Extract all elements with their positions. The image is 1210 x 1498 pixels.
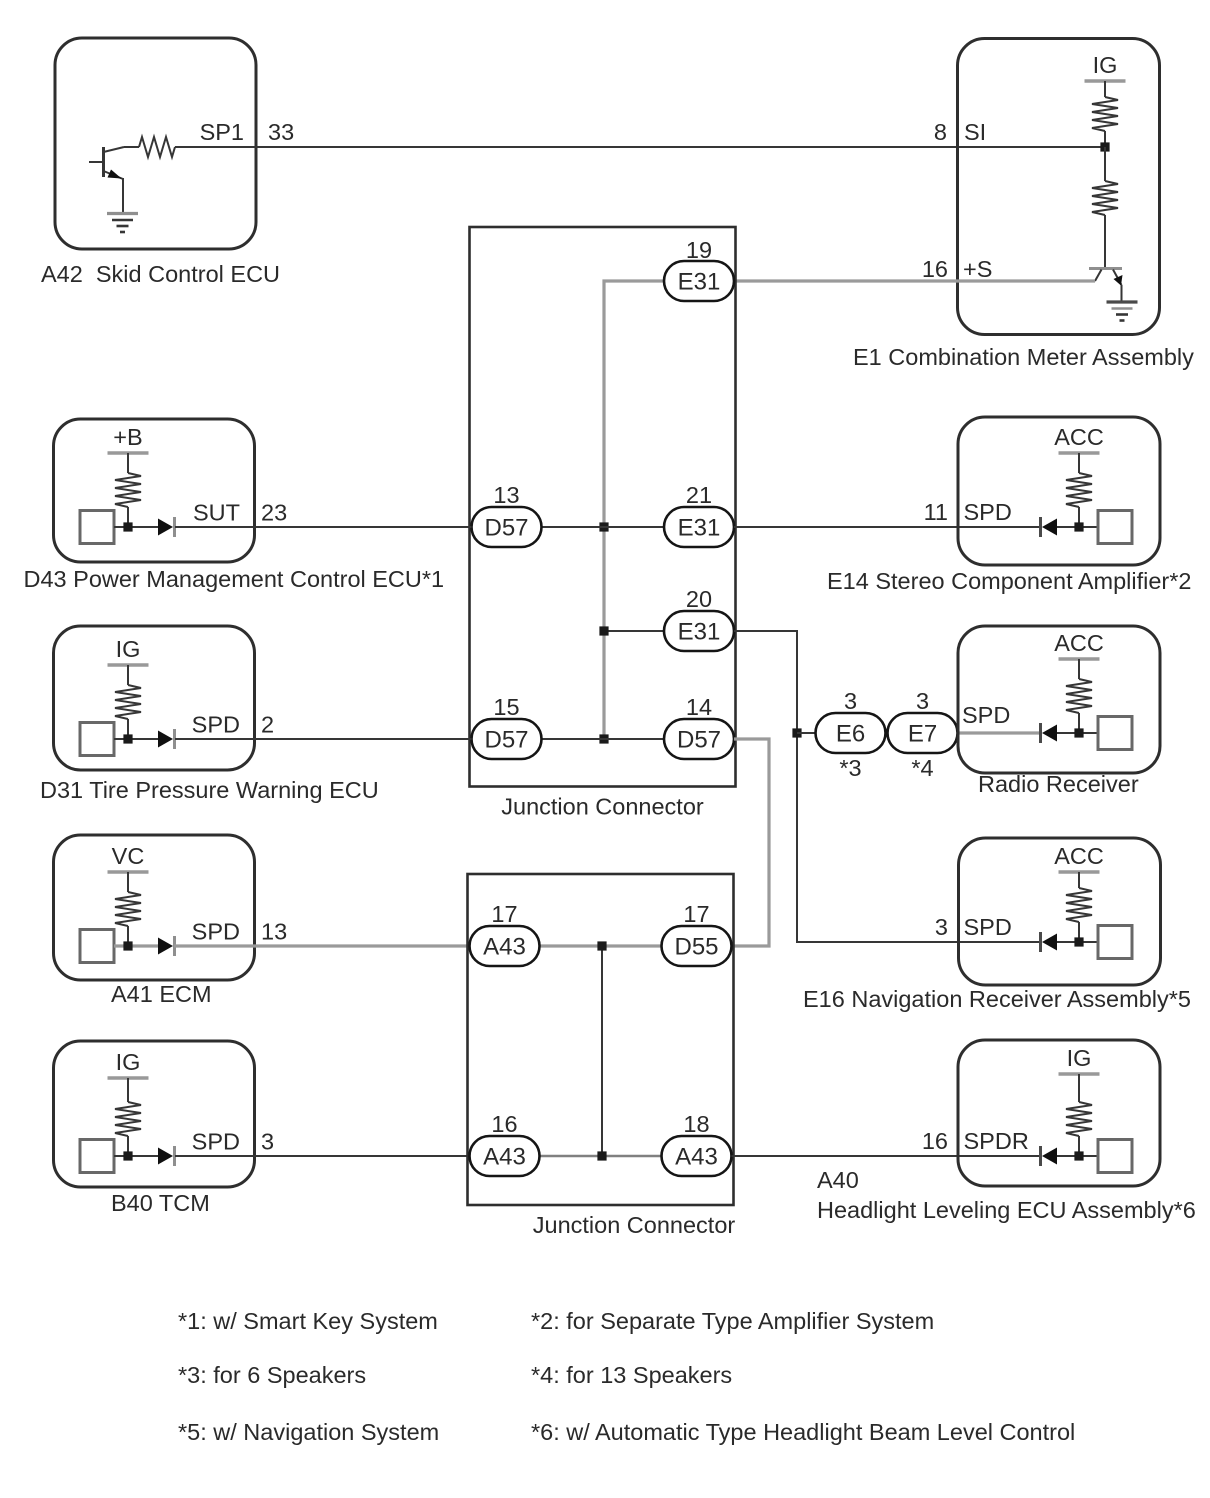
- svg-text:33: 33: [268, 119, 294, 145]
- junction node (bus at row E31 20): [599, 626, 608, 635]
- junction node (E16): [1074, 937, 1083, 946]
- label D31 Tire Pressure Warning ECU: [40, 777, 379, 803]
- power tap VC (A41): [108, 843, 149, 872]
- svg-text:Radio Receiver: Radio Receiver: [978, 771, 1139, 797]
- connector E6 pin 3: [816, 713, 886, 753]
- svg-text:E31: E31: [678, 619, 721, 646]
- wire ACC to R8: [1078, 872, 1080, 888]
- svg-text:+B: +B: [113, 424, 142, 450]
- wire node SI to R3: [1104, 147, 1106, 181]
- wire D57 15 to D57 14: [542, 738, 664, 740]
- svg-text:SP1: SP1: [200, 119, 244, 145]
- wire E31 pin20 to E16 SPD (net 3): [734, 631, 1040, 942]
- svg-text:D31 Tire Pressure Warning ECU: D31 Tire Pressure Warning ECU: [40, 777, 379, 803]
- svg-text:D55: D55: [674, 934, 718, 961]
- power tap ACC (Radio): [1054, 630, 1104, 659]
- wire node to diode (B40): [114, 1155, 158, 1157]
- footnote *6: [531, 1419, 1075, 1445]
- wire R11 to node: [1078, 1136, 1080, 1156]
- svg-text:13: 13: [493, 482, 519, 508]
- wire VC to R9: [127, 872, 129, 892]
- ECU box A40 Headlight Leveling ECU Assembly: [958, 1040, 1160, 1186]
- footnote *1: [178, 1308, 438, 1334]
- pin number 18 (A43): [683, 1111, 709, 1137]
- wire A43 pin18 to A40 SPDR (net 16): [732, 1155, 1041, 1157]
- junction node (D43): [123, 522, 132, 531]
- power tap ACC (E14): [1054, 424, 1104, 453]
- pin label SUT: [193, 500, 240, 526]
- svg-text:E14 Stereo Component Amplifier: E14 Stereo Component Amplifier*2: [827, 568, 1191, 594]
- svg-text:*4: *4: [911, 755, 933, 781]
- pin number 8: [934, 119, 947, 145]
- resistor R5 (D31 pull-up): [115, 685, 141, 719]
- wire SPD signal A42 SP1 to E1 SI (net 33-8): [175, 146, 1105, 148]
- svg-text:SPD: SPD: [192, 1129, 240, 1155]
- svg-text:14: 14: [686, 694, 712, 720]
- svg-text:SPD: SPD: [962, 702, 1010, 728]
- svg-text:IG: IG: [116, 636, 141, 662]
- svg-text:D57: D57: [484, 727, 528, 754]
- connector D57 pin 15: [472, 719, 542, 759]
- svg-text:SI: SI: [964, 119, 986, 145]
- ECU box D43 Power Management Control ECU: [54, 419, 255, 562]
- ECU box E16 Navigation Receiver Assembly: [959, 838, 1161, 985]
- resistor R9 (A41 pull-up): [115, 892, 141, 926]
- transistor Q2 (E1 input, NPN): [1089, 269, 1123, 302]
- svg-text:*5: w/ Navigation System: *5: w/ Navigation System: [178, 1419, 439, 1445]
- label A40: [817, 1167, 859, 1193]
- connector A43 pin 16: [470, 1136, 540, 1176]
- square pin (D43 internal): [80, 511, 114, 544]
- svg-text:*3: *3: [839, 755, 861, 781]
- svg-text:18: 18: [683, 1111, 709, 1137]
- svg-text:3: 3: [844, 688, 857, 714]
- svg-text:*3: for 6 Speakers: *3: for 6 Speakers: [178, 1362, 366, 1388]
- svg-text:17: 17: [683, 901, 709, 927]
- wire R7 to node: [1078, 713, 1080, 733]
- wire R4 to node: [127, 507, 129, 527]
- junction node (Radio): [1074, 728, 1083, 737]
- svg-text:*4: for 13 Speakers: *4: for 13 Speakers: [531, 1362, 732, 1388]
- wire SPD 3 to A43 16: [175, 1155, 470, 1157]
- ECU box Radio Receiver: [958, 626, 1160, 773]
- resistor R10 (B40 pull-up): [115, 1102, 141, 1136]
- svg-text:SPD: SPD: [192, 712, 240, 738]
- resistor R11 (A40 pull-up): [1066, 1102, 1092, 1136]
- svg-text:+S: +S: [963, 256, 992, 282]
- svg-text:*1: w/ Smart Key System: *1: w/ Smart Key System: [178, 1308, 438, 1334]
- wire D57 13 to E31 21: [542, 526, 664, 528]
- svg-text:11: 11: [924, 499, 948, 525]
- pin number 16: [922, 256, 948, 282]
- resistor R6 (E14 pull-up): [1066, 473, 1092, 507]
- svg-text:A40: A40: [817, 1167, 859, 1193]
- svg-text:8: 8: [934, 119, 947, 145]
- pin label SP1: [200, 119, 244, 145]
- wire diode to node (Radio): [1057, 732, 1098, 734]
- svg-text:A43: A43: [483, 1144, 526, 1171]
- wire (shielded) E7 to radio node: [957, 731, 1040, 734]
- svg-text:E7: E7: [908, 721, 937, 748]
- junction node (E14): [1074, 522, 1083, 531]
- square pin (E14 internal): [1098, 511, 1132, 544]
- svg-text:E31: E31: [678, 269, 721, 296]
- diode D8 (A40 input): [1041, 1146, 1058, 1166]
- footnote ref *3 (E6): [839, 755, 861, 781]
- label Junction Connector (upper): [501, 794, 704, 820]
- svg-text:*6: w/ Automatic Type Headligh: *6: w/ Automatic Type Headlight Beam Lev…: [531, 1419, 1075, 1445]
- square pin (D31 internal): [80, 723, 114, 756]
- junction node (JC2 row 17): [597, 941, 606, 950]
- svg-text:15: 15: [493, 694, 519, 720]
- diode D3 (E14 input): [1041, 517, 1058, 537]
- svg-text:IG: IG: [116, 1049, 141, 1075]
- svg-text:16: 16: [922, 1128, 948, 1154]
- wire node to diode (D43): [114, 526, 158, 528]
- wire node to diode (D31): [114, 738, 158, 740]
- pin number 23: [261, 500, 287, 526]
- pin label SPDR: [964, 1128, 1029, 1154]
- footnote *2: [531, 1308, 934, 1334]
- junction node (A41): [123, 941, 132, 950]
- connector E31 pin 20: [664, 611, 734, 651]
- ECU box E1 Combination Meter Assembly: [958, 39, 1160, 335]
- wire (shielded) E31 pin19 to E1 +S (net 16): [734, 279, 1095, 282]
- pin number 11: [924, 499, 948, 525]
- junction node (D31): [123, 734, 132, 743]
- wire ACC to R7: [1078, 659, 1080, 679]
- svg-text:A43: A43: [483, 934, 526, 961]
- square pin (Radio internal): [1098, 717, 1132, 750]
- power tap ACC (E16): [1054, 843, 1104, 872]
- pin number 17 (A43): [491, 901, 517, 927]
- wire R3 to Q2 collector: [1104, 215, 1106, 267]
- svg-text:3: 3: [935, 914, 948, 940]
- wire IG to R5: [127, 665, 129, 685]
- pin number 3 (E16): [935, 914, 948, 940]
- svg-text:23: 23: [261, 500, 287, 526]
- footnote *4: [531, 1362, 732, 1388]
- pin number 16 (A43): [491, 1111, 517, 1137]
- svg-text:VC: VC: [112, 843, 145, 869]
- svg-text:IG: IG: [1067, 1045, 1092, 1071]
- pin number 2: [261, 712, 274, 738]
- power tap IG (E1): [1085, 52, 1126, 81]
- junction node (bus at row D57 13): [599, 522, 608, 531]
- svg-text:21: 21: [686, 482, 712, 508]
- resistor R3 (E1 lower): [1092, 181, 1118, 215]
- svg-text:SPDR: SPDR: [964, 1128, 1029, 1154]
- wire IG to R11: [1078, 1074, 1080, 1102]
- svg-text:Junction Connector: Junction Connector: [533, 1212, 736, 1238]
- svg-text:E1 Combination Meter Assembly: E1 Combination Meter Assembly: [853, 344, 1194, 370]
- resistor R1 (A42 output): [124, 137, 175, 157]
- diode D4 (Radio input): [1041, 723, 1058, 743]
- resistor R7 (Radio pull-up): [1066, 679, 1092, 713]
- svg-text:A41 ECM: A41 ECM: [111, 981, 212, 1007]
- junction node (B40): [123, 1151, 132, 1160]
- resistor R8 (E16 pull-up): [1066, 888, 1092, 922]
- pin number 20: [686, 586, 712, 612]
- svg-text:SPD: SPD: [964, 914, 1012, 940]
- wire diode to node (E16): [1057, 941, 1098, 943]
- label E1 Combination Meter Assembly: [853, 344, 1194, 370]
- wire E31 pin19 internal to bus (shielded): [604, 281, 664, 739]
- svg-text:SPD: SPD: [964, 499, 1012, 525]
- svg-text:B40 TCM: B40 TCM: [111, 1190, 210, 1216]
- square pin (A40 internal): [1098, 1140, 1132, 1173]
- square pin (A41 internal): [80, 930, 114, 963]
- junction connector box 1: [470, 227, 736, 787]
- footnote *3: [178, 1362, 366, 1388]
- connector A43 pin 18: [662, 1136, 732, 1176]
- junction node (radio branch): [792, 728, 801, 737]
- label Headlight Leveling ECU Assembly*6: [817, 1197, 1196, 1223]
- ECU box A41 ECM: [54, 835, 255, 980]
- wire R5 to node: [127, 719, 129, 739]
- resistor R4 (D43 pull-up): [115, 473, 141, 507]
- wire R8 to node: [1078, 922, 1080, 942]
- svg-text:SPD: SPD: [192, 919, 240, 945]
- wire A43 16 to A43 18: [540, 1155, 662, 1158]
- svg-text:13: 13: [261, 919, 287, 945]
- svg-text:20: 20: [686, 586, 712, 612]
- pin number 15: [493, 694, 519, 720]
- connector A43 pin 17: [470, 926, 540, 966]
- svg-text:Junction Connector: Junction Connector: [501, 794, 704, 820]
- svg-text:Headlight Leveling ECU Assembl: Headlight Leveling ECU Assembly*6: [817, 1197, 1196, 1223]
- connector E7 pin 3: [888, 713, 958, 753]
- node SI junction: [1100, 142, 1109, 151]
- footnote ref *4 (E7): [911, 755, 933, 781]
- svg-text:3: 3: [916, 688, 929, 714]
- diode D7 (B40 buffer): [158, 1146, 175, 1166]
- connector D57 pin 13: [472, 507, 542, 547]
- ground (E1): [1107, 302, 1138, 321]
- junction node (A40): [1074, 1151, 1083, 1160]
- label A41 ECM: [111, 981, 212, 1007]
- svg-text:E16 Navigation Receiver Assemb: E16 Navigation Receiver Assembly*5: [803, 986, 1191, 1012]
- pin number 33: [268, 119, 294, 145]
- ECU box E14 Stereo Component Amplifier: [958, 417, 1160, 565]
- wire SPD 13 to A43 17 (shielded): [174, 944, 470, 947]
- svg-text:19: 19: [686, 237, 712, 263]
- ECU box B40 TCM: [54, 1041, 255, 1187]
- pin label SPD (B40): [192, 1129, 240, 1155]
- svg-text:E31: E31: [678, 515, 721, 542]
- svg-text:A43: A43: [675, 1144, 718, 1171]
- wire diode to node (E14): [1057, 526, 1098, 528]
- power tap +B (D43): [108, 424, 149, 453]
- wire SPD 2 to D57 15: [175, 738, 472, 740]
- pin number 3 (B40): [261, 1129, 274, 1155]
- label B40 TCM: [111, 1190, 210, 1216]
- svg-text:D43 Power Management Control E: D43 Power Management Control ECU*1: [24, 566, 445, 592]
- wire E31 pin20 to bus: [604, 630, 664, 632]
- pin label SPD (E14): [964, 499, 1012, 525]
- wire ACC to R6: [1078, 453, 1080, 473]
- pin label SPD (A41): [192, 919, 240, 945]
- svg-text:D57: D57: [484, 515, 528, 542]
- svg-text:A42 Skid Control ECU: A42 Skid Control ECU: [41, 261, 280, 287]
- wire R2 to node SI: [1104, 131, 1106, 147]
- wire R10 to node: [127, 1136, 129, 1156]
- svg-text:2: 2: [261, 712, 274, 738]
- pin number 17 (D55): [683, 901, 709, 927]
- ECU box D31 Tire Pressure Warning ECU: [54, 626, 255, 770]
- wire branch to E6: [797, 732, 816, 734]
- svg-text:D57: D57: [677, 727, 721, 754]
- footnote *5: [178, 1419, 439, 1445]
- wire +B to R4: [127, 453, 129, 473]
- transistor Q1 (output, NPN): [89, 147, 124, 213]
- pin label SI: [964, 119, 986, 145]
- wire R6 to node: [1078, 507, 1080, 527]
- svg-text:16: 16: [922, 256, 948, 282]
- connector E31 pin 21: [664, 507, 734, 547]
- pin label +S: [963, 256, 992, 282]
- junction node (JC2 row 16): [597, 1151, 606, 1160]
- diode D5 (E16 input): [1041, 932, 1058, 952]
- diode D2 (D31 buffer): [158, 729, 175, 749]
- wire node to diode (A41): [114, 944, 159, 947]
- wire A43 17 to D55 17 (shielded): [540, 944, 662, 947]
- label D43 Power Management Control ECU*1: [24, 566, 445, 592]
- label E16 Navigation Receiver Assembly*5: [803, 986, 1191, 1012]
- wire SUT 23 to D57 13: [175, 526, 472, 528]
- pin number 3 (E7): [916, 688, 929, 714]
- connector D57 pin 14: [664, 719, 734, 759]
- svg-text:E6: E6: [836, 721, 865, 748]
- junction node (bus at row D57 15): [599, 734, 608, 743]
- pin number 3 (E6): [844, 688, 857, 714]
- resistor R2 (E1 upper): [1092, 97, 1118, 131]
- label Junction Connector (lower): [533, 1212, 736, 1238]
- power tap IG (D31): [108, 636, 149, 665]
- ground (A42): [107, 214, 138, 233]
- square pin (B40 internal): [80, 1140, 114, 1173]
- svg-text:17: 17: [491, 901, 517, 927]
- wire IG to R2: [1104, 81, 1106, 97]
- label A42 Skid Control ECU: [41, 261, 280, 287]
- svg-text:16: 16: [491, 1111, 517, 1137]
- svg-text:*2: for Separate Type Amplifie: *2: for Separate Type Amplifier System: [531, 1308, 934, 1334]
- connector E31 pin 19: [664, 261, 734, 301]
- pin number 16 (A40): [922, 1128, 948, 1154]
- label Radio Receiver: [978, 771, 1139, 797]
- junction connector box 2: [468, 874, 734, 1205]
- wire IG to R10: [127, 1078, 129, 1102]
- wire E31 pin21 to E14 SPD (net 11): [734, 526, 1040, 528]
- pin label SPD (Radio): [962, 702, 1010, 728]
- label E14 Stereo Component Amplifier*2: [827, 568, 1191, 594]
- wire diode to node (A40): [1057, 1155, 1098, 1157]
- pin number 21: [686, 482, 712, 508]
- svg-text:3: 3: [261, 1129, 274, 1155]
- svg-text:IG: IG: [1093, 52, 1118, 78]
- pin number 14: [686, 694, 712, 720]
- svg-text:SUT: SUT: [193, 500, 240, 526]
- svg-text:ACC: ACC: [1054, 630, 1104, 656]
- pin number 13: [493, 482, 519, 508]
- power tap IG (B40): [108, 1049, 149, 1078]
- pin label SPD (D31): [192, 712, 240, 738]
- connector D55 pin 17: [662, 926, 732, 966]
- pin number 13 (A41): [261, 919, 287, 945]
- pin label SPD (E16): [964, 914, 1012, 940]
- svg-text:ACC: ACC: [1054, 843, 1104, 869]
- bus wire JC2: [601, 946, 603, 1156]
- wire R9 to node: [127, 926, 129, 946]
- ECU box A42 Skid Control ECU: [55, 38, 256, 249]
- pin number 19: [686, 237, 712, 263]
- svg-text:ACC: ACC: [1054, 424, 1104, 450]
- diode D1 (D43 buffer): [158, 517, 175, 537]
- power tap IG (A40): [1059, 1045, 1100, 1074]
- square pin (E16 internal): [1098, 926, 1132, 959]
- wire (shielded) D57 pin14 to D55 pin17: [732, 739, 770, 946]
- diode D6 (A41 buffer): [158, 936, 175, 956]
